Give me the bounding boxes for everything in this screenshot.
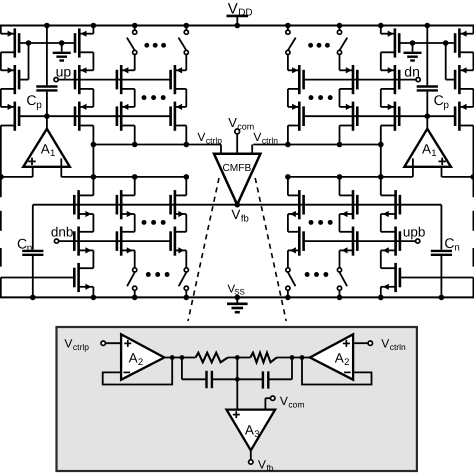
svg-text:ctrln: ctrln	[390, 342, 406, 352]
svg-text:fb: fb	[266, 463, 273, 473]
svg-text:2: 2	[138, 357, 143, 368]
svg-text:ctrlp: ctrlp	[206, 135, 222, 145]
svg-text:C: C	[444, 235, 454, 251]
svg-text:upb: upb	[403, 225, 426, 240]
svg-text:ctrln: ctrln	[262, 135, 278, 145]
svg-text:V: V	[381, 336, 389, 350]
svg-text:up: up	[56, 63, 72, 79]
svg-text:A: A	[245, 422, 254, 437]
svg-text:A: A	[422, 142, 431, 157]
svg-text:A: A	[129, 351, 138, 366]
svg-text:V: V	[228, 115, 237, 130]
svg-text:C: C	[434, 92, 444, 108]
svg-text:A: A	[41, 142, 50, 157]
svg-text:com: com	[288, 399, 304, 409]
svg-text:V: V	[64, 336, 72, 350]
svg-text:V: V	[231, 207, 240, 222]
svg-text:C: C	[17, 235, 27, 251]
svg-text:V: V	[253, 130, 261, 144]
svg-text:2: 2	[344, 357, 349, 368]
svg-text:CMFB: CMFB	[222, 163, 251, 174]
svg-text:3: 3	[254, 429, 259, 440]
svg-text:V: V	[197, 130, 205, 144]
svg-text:dnb: dnb	[51, 225, 74, 240]
svg-text:A: A	[335, 351, 344, 366]
svg-text:p: p	[36, 100, 42, 111]
svg-text:n: n	[27, 243, 33, 254]
svg-text:1: 1	[50, 148, 55, 159]
svg-text:V: V	[280, 394, 288, 408]
svg-text:C: C	[26, 92, 36, 108]
svg-text:1: 1	[431, 148, 436, 159]
svg-text:n: n	[454, 242, 460, 253]
svg-text:ctrlp: ctrlp	[73, 342, 89, 352]
svg-text:V: V	[258, 457, 266, 471]
svg-text:p: p	[443, 100, 449, 111]
svg-text:fb: fb	[241, 213, 249, 224]
